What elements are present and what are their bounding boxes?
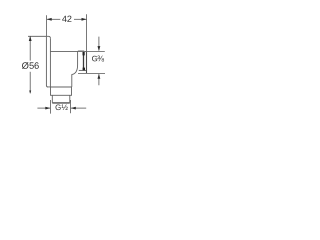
G38 glyph G (92, 56, 97, 62)
flange top edge (46, 36, 50, 38)
arrowhead G3/8 up (98, 74, 101, 79)
G12 glyph 1/2 (62, 105, 68, 110)
arrowhead G1/2 left (71, 107, 76, 110)
dim G3/8 top extension line (87, 50, 105, 52)
G12 glyph G (56, 104, 61, 110)
arrowhead 42 right (82, 18, 87, 21)
arrowhead G3/8 down (98, 46, 101, 51)
O56 glyph 5 (29, 62, 33, 68)
O56 glyph O (22, 62, 29, 69)
num42 glyph 2 (67, 16, 71, 22)
lower pipe right wall (69, 95, 71, 102)
dim O56 top extension line (28, 35, 46, 37)
dim O56 line lower segment (29, 72, 31, 94)
arrowhead G1/2 right (45, 107, 50, 110)
port top thread crest doubling (78, 50, 84, 52)
collar rectangle (G 1/2 thread collar) (51, 87, 72, 95)
flange right edge / pipe left wall (49, 38, 51, 87)
dim 42 line right segment (74, 18, 86, 20)
port groove dark blob top (82, 52, 84, 55)
port face (right end, darker) (86, 51, 88, 73)
arrowhead O56 down (small) (29, 91, 31, 94)
background (0, 0, 130, 130)
O56 glyph 6 (35, 62, 39, 69)
dim 42 right extension line (86, 14, 88, 51)
dim O56 line upper segment (29, 37, 31, 61)
arrowhead O56 up (29, 36, 32, 41)
num42 glyph 4 (62, 16, 67, 22)
flange left edge (46, 36, 48, 87)
body top edge (50, 50, 86, 52)
dim G3/8 lower arrow line (98, 74, 100, 85)
flange bottom and collar top edge (47, 86, 72, 88)
port groove dark blob bottom (83, 68, 85, 71)
dim G1/2 right extension line (70, 100, 72, 113)
body right face and fillet to outlet pipe (72, 52, 78, 87)
port bottom inner line (79, 69, 87, 71)
G38 glyph 3/8 (97, 56, 104, 62)
dim G1/2 left arrow line (37, 107, 50, 109)
dim G3/8 upper arrow line (98, 37, 100, 51)
lower pipe bottom edge (dark) (52, 102, 70, 104)
dim G3/8 bottom extension line (78, 72, 105, 74)
dim G1/2 left extension line (50, 100, 52, 114)
lower pipe left wall (51, 95, 53, 102)
arrowhead 42 left (47, 18, 52, 21)
port thread groove dark bar (83, 52, 85, 70)
dim 42 line left segment (47, 18, 60, 20)
dim G1/2 right arrow line (71, 107, 86, 109)
dim 42 left extension line (46, 15, 48, 36)
